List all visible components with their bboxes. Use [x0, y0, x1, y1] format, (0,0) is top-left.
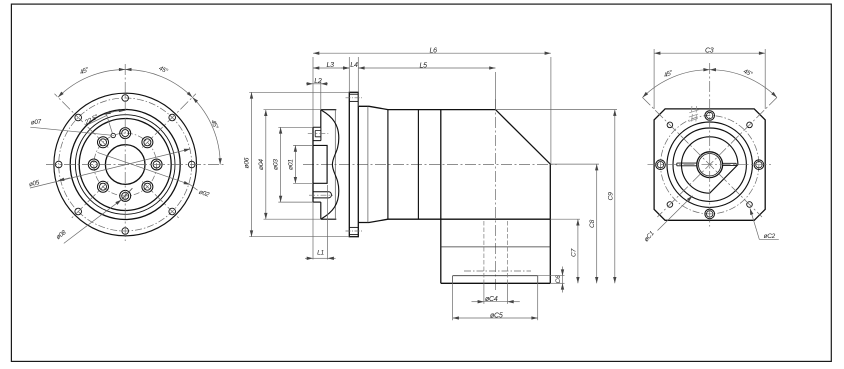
clamp boss outline — [313, 127, 321, 140]
C3 ext right — [764, 49, 766, 109]
dim L1 arrows outside — [305, 257, 313, 259]
dim dia04 — [265, 110, 267, 220]
vertical centerline — [709, 63, 711, 227]
ext line flange right top — [357, 57, 359, 106]
flange circle inner — [673, 128, 746, 201]
axis hole left — [656, 111, 764, 219]
diaC2 leader — [750, 209, 779, 240]
diaC4 dim arrows outside — [472, 301, 484, 303]
block internal bearing line — [441, 246, 551, 248]
bell housing bottom edge — [321, 218, 337, 220]
22.5deg dim arc — [105, 110, 126, 114]
clamp collar slot — [313, 192, 331, 198]
leader line for pin hole dia — [30, 127, 111, 135]
diagonal centerline tr-bl — [657, 98, 777, 218]
45 dim arc left — [643, 70, 710, 98]
ext line flange left top — [348, 57, 350, 92]
C7 ext top — [550, 218, 580, 220]
C8 dim — [596, 164, 598, 283]
diaC4 ext right — [506, 283, 508, 304]
45 dim arc right — [710, 70, 777, 98]
C8 ext top — [550, 163, 599, 165]
dim L3 — [313, 67, 349, 69]
outer flange circle — [54, 93, 197, 236]
svg-text:C3: C3 — [705, 47, 714, 54]
ext line bell top-left — [320, 81, 322, 110]
step corner right — [537, 276, 539, 284]
center bore circle — [105, 145, 145, 185]
angular dim arc 135-90 — [58, 69, 125, 97]
C6 ext step — [538, 275, 565, 277]
svg-text:L4: L4 — [350, 62, 358, 69]
dia06 ext bottom — [249, 236, 349, 238]
hidden bore line right — [506, 221, 508, 283]
pin hole at 22.5deg — [111, 133, 115, 137]
svg-text:ø07: ø07 — [30, 118, 42, 126]
svg-text:L6: L6 — [430, 48, 438, 55]
dim L5 — [358, 67, 495, 69]
diagonal centerline tl-br — [643, 98, 763, 218]
output block left joint — [440, 110, 442, 284]
input bore inner — [699, 154, 721, 176]
dia01 ext bottom — [293, 182, 313, 184]
dia06 ext top — [249, 91, 349, 93]
svg-text:øC4: øC4 — [485, 296, 498, 303]
horizontal centerline — [648, 164, 772, 166]
collar slot centerline — [309, 194, 333, 196]
diaC5 ext right — [537, 276, 539, 320]
ext line L6 right — [550, 57, 552, 164]
dia04 ext bottom — [264, 218, 321, 220]
diaC1 leader — [658, 196, 693, 231]
horizontal centerline — [303, 163, 557, 165]
dim dia03 — [280, 127, 282, 202]
ext line body corner — [495, 72, 497, 110]
flange circle outer — [667, 122, 752, 207]
vertical centerline — [124, 64, 126, 241]
outer bolt circle (dash-dot) — [59, 98, 192, 231]
svg-text:ø03: ø03 — [273, 159, 280, 170]
boss chamfer circle — [75, 115, 175, 215]
dia03 ext bottom — [278, 201, 313, 203]
ext line left face — [312, 57, 314, 127]
svg-text:L3: L3 — [327, 62, 335, 69]
dia04 ext top — [264, 109, 321, 111]
bell S-curve profile — [322, 110, 339, 218]
angular dim arc 45-0 — [192, 97, 220, 164]
45deg radial upper-left — [55, 94, 109, 148]
body ring joint 3 — [417, 110, 419, 220]
ext line L1 right — [327, 185, 329, 260]
flange hole bottom upper edge — [349, 226, 358, 228]
dim L2 arrows outside — [306, 83, 313, 85]
svg-text:øC2: øC2 — [764, 233, 776, 240]
dim L4 arrows outside — [341, 67, 349, 69]
svg-text:C9: C9 — [607, 192, 614, 201]
keyway tab right — [723, 163, 737, 165]
output block bottom — [441, 282, 551, 284]
input bore rectangle — [313, 145, 327, 183]
recess circle — [79, 119, 171, 211]
C9 dim — [614, 110, 616, 284]
horizontal centerline — [46, 164, 226, 166]
8 outer holes — [55, 95, 195, 235]
flange chamfer line bottom — [349, 234, 358, 236]
45deg radial upper-right — [142, 94, 196, 148]
input shaft left face — [312, 127, 314, 202]
C6 ext bottom — [550, 282, 564, 284]
diaC5 ext left — [452, 276, 454, 320]
bolt circle dash-dot — [661, 116, 759, 214]
bell housing top edge — [321, 109, 337, 111]
dia01 ext top — [293, 144, 313, 146]
svg-text:C8: C8 — [589, 219, 596, 228]
leader line screw hole dia — [64, 200, 122, 244]
dim line inner bolt circle dia — [30, 149, 190, 188]
clamp screw centerline — [308, 133, 329, 135]
svg-text:ø01: ø01 — [288, 159, 295, 170]
boss circle — [70, 110, 180, 220]
22.5deg label leader — [88, 115, 107, 124]
input bore outer — [697, 152, 723, 178]
bell cylinder face — [334, 110, 336, 220]
dim dia06 — [251, 92, 253, 236]
output axis centerline — [495, 99, 497, 290]
flange hole top lower edge — [349, 100, 358, 102]
45deg radial lower-right — [142, 182, 179, 219]
mounting flange plate — [349, 92, 358, 236]
bell left face upper — [320, 110, 322, 128]
22.5deg pin radial extension — [107, 115, 113, 134]
output flange step line — [453, 275, 538, 277]
svg-text:L1: L1 — [317, 250, 324, 257]
keyway slot left — [677, 163, 697, 166]
8 socket screws on inner bolt circle — [88, 128, 162, 202]
clamp screw inner — [315, 131, 321, 137]
diaC4 ext left — [483, 283, 485, 304]
C6 dim arrows outside — [562, 267, 564, 276]
ext line left face bottom — [312, 202, 314, 259]
C3 dim — [654, 52, 765, 54]
inner bolt circle (dash-dot) — [94, 133, 157, 196]
dim L6 — [313, 52, 551, 54]
shaft hub circle with 45 chamfer cut — [682, 137, 738, 193]
corner holes — [667, 122, 752, 207]
flange hole top centerline — [346, 97, 363, 99]
svg-text:ø06: ø06 — [244, 157, 251, 168]
flange chamfer line top — [349, 93, 358, 95]
diaC5 dim — [453, 317, 538, 319]
spigot centerline mark — [464, 270, 531, 272]
dim dia01 — [294, 145, 296, 183]
C7 dim — [577, 219, 579, 283]
svg-text:L2: L2 — [314, 78, 322, 85]
svg-text:øC5: øC5 — [490, 312, 503, 319]
square flange outline with corner chamfers — [654, 109, 765, 220]
hidden bore line left — [483, 221, 485, 283]
body ring joint near flange — [367, 106, 369, 222]
thread relief marks — [689, 106, 699, 122]
bell left face lower — [320, 202, 322, 219]
dim line outer bolt circle dia — [98, 152, 191, 184]
collar bottom edge — [313, 201, 321, 203]
svg-text:ø04: ø04 — [258, 159, 265, 170]
C9 ext top — [496, 109, 618, 111]
step corner left — [452, 276, 454, 284]
svg-text:L5: L5 — [420, 62, 428, 69]
svg-text:C7: C7 — [570, 248, 577, 257]
flange hole bottom centerline — [346, 230, 363, 232]
dia03 ext top — [278, 126, 313, 128]
C3 ext left — [653, 49, 655, 109]
body ring joint 2 — [387, 110, 389, 220]
body outline — [358, 106, 550, 283]
45deg radial lower-left — [71, 182, 108, 219]
angular dim arc 90-45 — [125, 69, 192, 97]
svg-text:C6: C6 — [555, 275, 562, 284]
